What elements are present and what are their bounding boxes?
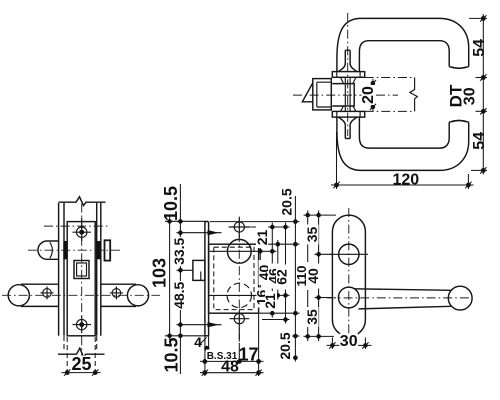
vertical centerline dash-dot [348, 208, 350, 344]
label 21 upper [254, 226, 270, 248]
faceplate top edge [205, 221, 209, 223]
ext plate bottom [165, 335, 205, 337]
dim 30 dots [330, 343, 335, 348]
rose plate left outer [58, 203, 60, 336]
svg-text:62: 62 [273, 269, 289, 285]
svg-text:20.5: 20.5 [277, 332, 293, 359]
latch bolt tab inner mark [200, 272, 202, 281]
rose plate top [332, 72, 364, 78]
spindle bar between roses [345, 77, 350, 111]
right ext top [469, 17, 487, 19]
svg-text:21: 21 [262, 293, 278, 309]
faceplate screw bottom [73, 316, 92, 333]
bottom handle outer outline [337, 117, 469, 170]
svg-text:33.5: 33.5 [171, 237, 187, 264]
label 20.5 bottom [277, 331, 293, 361]
case screw bottom [230, 310, 250, 340]
dim line 110 [307, 211, 309, 342]
label 21 lower [262, 291, 278, 311]
svg-text:25: 25 [71, 354, 91, 374]
svg-text:20: 20 [360, 86, 377, 104]
latch bolt face (square) outer [74, 261, 89, 279]
dim 20 dots [371, 81, 376, 86]
label 33.5 [171, 237, 187, 266]
latch center dash-dot line [44, 225, 111, 227]
hub centerline horizontal [210, 250, 260, 252]
dim 25 line [62, 372, 101, 374]
door top break line [59, 197, 106, 206]
svg-text:4: 4 [194, 334, 202, 350]
dim 30 line [327, 344, 372, 346]
faceplate bottom edge [205, 335, 209, 337]
dim 30 ext left [331, 338, 333, 350]
lever bar left [21, 284, 59, 306]
left stack dots [305, 213, 310, 218]
internal mechanism dashed box [214, 247, 254, 309]
right dim line 21/16 [271, 223, 273, 318]
svg-text:48: 48 [221, 358, 239, 375]
right ext door top [476, 77, 488, 79]
svg-text:20.5: 20.5 [279, 188, 295, 215]
ext cylinder center [315, 253, 333, 255]
lever knob end circle [448, 286, 472, 310]
right dim line 20.5 [294, 196, 296, 362]
label 62 [273, 265, 289, 290]
door face dash-dot top [365, 77, 415, 79]
door break squiggle [410, 78, 418, 112]
dim 120 line [331, 184, 474, 186]
door bottom break line [58, 348, 105, 357]
label 35 bottom [304, 307, 320, 327]
rose plate bottom [332, 111, 364, 117]
FIG3 right: escutcheon plate with lever [294, 208, 473, 350]
label 20.5 top [279, 187, 295, 217]
faceplate screw top [73, 218, 92, 242]
dim 25 label [71, 356, 92, 372]
dim 20 line [372, 79, 374, 111]
svg-text:30: 30 [462, 87, 479, 105]
BS dim dots [203, 359, 208, 364]
knob centerline dash-dot [28, 249, 122, 251]
latch bolt tab [193, 260, 205, 280]
cylinder cross horizontal [330, 253, 368, 255]
top handle grip end dish [449, 67, 469, 69]
right dim line [482, 14, 484, 175]
case screw top [229, 218, 251, 239]
svg-text:10.5: 10.5 [161, 337, 181, 372]
svg-text:40: 40 [305, 268, 321, 284]
left dim dots [167, 219, 172, 224]
right dim line 46 [277, 240, 279, 300]
dim 120 dots [334, 183, 339, 188]
leader arrow bottom [177, 322, 222, 327]
lever centerline dash-dot [327, 297, 473, 299]
latch case outer [313, 79, 332, 110]
svg-text:35: 35 [304, 227, 320, 243]
svg-text:21: 21 [254, 230, 270, 246]
top handle inner outline [359, 41, 449, 72]
door face dashes below [63, 336, 65, 352]
svg-text:10.5: 10.5 [161, 186, 181, 221]
right ext bottom [471, 169, 487, 171]
latch case middle section [332, 84, 354, 106]
dim 25 extension left [66, 337, 68, 376]
ext latch center [177, 269, 193, 271]
svg-text:54: 54 [471, 132, 488, 150]
faceplate (edge-on) body [67, 222, 95, 336]
ext hub center [315, 297, 333, 299]
cylinder hole circle (hidden) [227, 283, 251, 307]
vertical centerline dash-dot [238, 217, 240, 344]
spindle top bar [345, 50, 350, 63]
cylinder centerline horizontal [210, 294, 260, 296]
lever top edge [355, 289, 452, 291]
right dim line 40 [259, 247, 261, 300]
label 30 [340, 333, 359, 350]
svg-text:17: 17 [238, 345, 258, 365]
label 40 [305, 264, 321, 289]
spindle hub cone above bottom rose [341, 106, 356, 112]
right ext door bottom [476, 110, 488, 112]
svg-text:103: 103 [149, 258, 169, 288]
svg-text:48.5: 48.5 [171, 281, 187, 308]
lever left end cap circle [8, 285, 29, 306]
right dim dots [481, 16, 486, 21]
top handle outer outline [337, 18, 469, 71]
lever bar right [101, 284, 136, 306]
48 dim dots [203, 370, 208, 375]
label 40 [256, 260, 272, 285]
ext oval top [304, 214, 337, 216]
dim 25 dots [65, 370, 70, 375]
label 35 top [304, 225, 320, 245]
label 20 [360, 85, 377, 105]
bottom handle grip end dish [449, 120, 469, 122]
spindle top flare [338, 64, 357, 72]
dim line 35/40/35 [318, 211, 320, 342]
rose screw right [110, 286, 123, 299]
label B.S.31 [206, 350, 238, 362]
escutcheon oval plate [332, 215, 365, 336]
svg-text:120: 120 [392, 171, 419, 188]
dim 30 ext right [364, 338, 366, 350]
faceplate front edge left line [204, 222, 206, 336]
cylinder knob left [38, 241, 59, 259]
bottom handle inner outline [359, 117, 449, 148]
svg-text:54: 54 [471, 39, 488, 57]
FIG4 top-right: handle pair plan view [293, 13, 488, 189]
door face dash-dot bottom [365, 110, 415, 112]
latch section bar left (solid) [63, 241, 67, 259]
handle centerline vertical dash-dot [347, 13, 349, 136]
thumbturn right small block [105, 240, 111, 260]
dim line 48 [200, 372, 264, 374]
label 16 [254, 288, 270, 308]
plate thickness dim 4 [194, 334, 209, 351]
ext plate top [165, 220, 208, 222]
cylinder knob arc detail [50, 242, 53, 258]
label 110 [294, 262, 309, 290]
door face right [96, 203, 98, 336]
left dim line 103 [169, 217, 171, 341]
door face left [63, 203, 65, 336]
svg-text:30: 30 [340, 333, 358, 350]
spindle hub cone below top rose [341, 77, 356, 83]
rose plate bottom steps [337, 111, 360, 117]
FIG2 middle: lock case front view [149, 184, 299, 376]
lever bottom edge [359, 306, 452, 309]
dim 25 extension right [94, 337, 96, 376]
latch bolt bevel [302, 83, 312, 102]
rose plate top steps [337, 72, 360, 78]
latch bolt face inner [77, 263, 87, 276]
rose screw left [41, 286, 54, 299]
left dim line stack [179, 184, 181, 374]
latch centerline dash-dot [293, 94, 398, 96]
svg-text:35: 35 [304, 309, 320, 325]
right dim dots [258, 249, 263, 254]
label 46 [265, 264, 281, 289]
lock case body [209, 244, 259, 313]
FIG1 left: mortise lock edge view [2, 197, 160, 376]
faceplate front edge right line [208, 222, 210, 336]
cylinder hole circle [339, 244, 359, 264]
spindle flare below bottom rose [338, 117, 357, 125]
hub hole circle [227, 239, 251, 263]
dim 120 ext left [336, 132, 338, 189]
screw2 extension to dim line [238, 343, 240, 361]
dim 120 ext right [467, 174, 469, 189]
right ext lines [210, 221, 300, 223]
spindle bottom bar [345, 125, 350, 138]
lever right end cap circle [127, 285, 148, 306]
right dim line 62/21 [285, 223, 287, 324]
label 48.5 [171, 281, 187, 310]
vertical centerline dash-dot [81, 204, 83, 357]
ext oval bottom [304, 335, 335, 337]
faceplate edge extensions for thickness dim [204, 336, 206, 376]
lever centerline dash-dot [2, 294, 160, 296]
hub circle [338, 287, 359, 308]
ext case right edge down [258, 313, 260, 376]
leader arrow top [177, 230, 222, 235]
latch case inner lines [317, 82, 332, 107]
dim line BS31 17 [200, 360, 264, 362]
rose plate right outer [100, 203, 102, 336]
latch section bar right (solid) [97, 241, 101, 259]
